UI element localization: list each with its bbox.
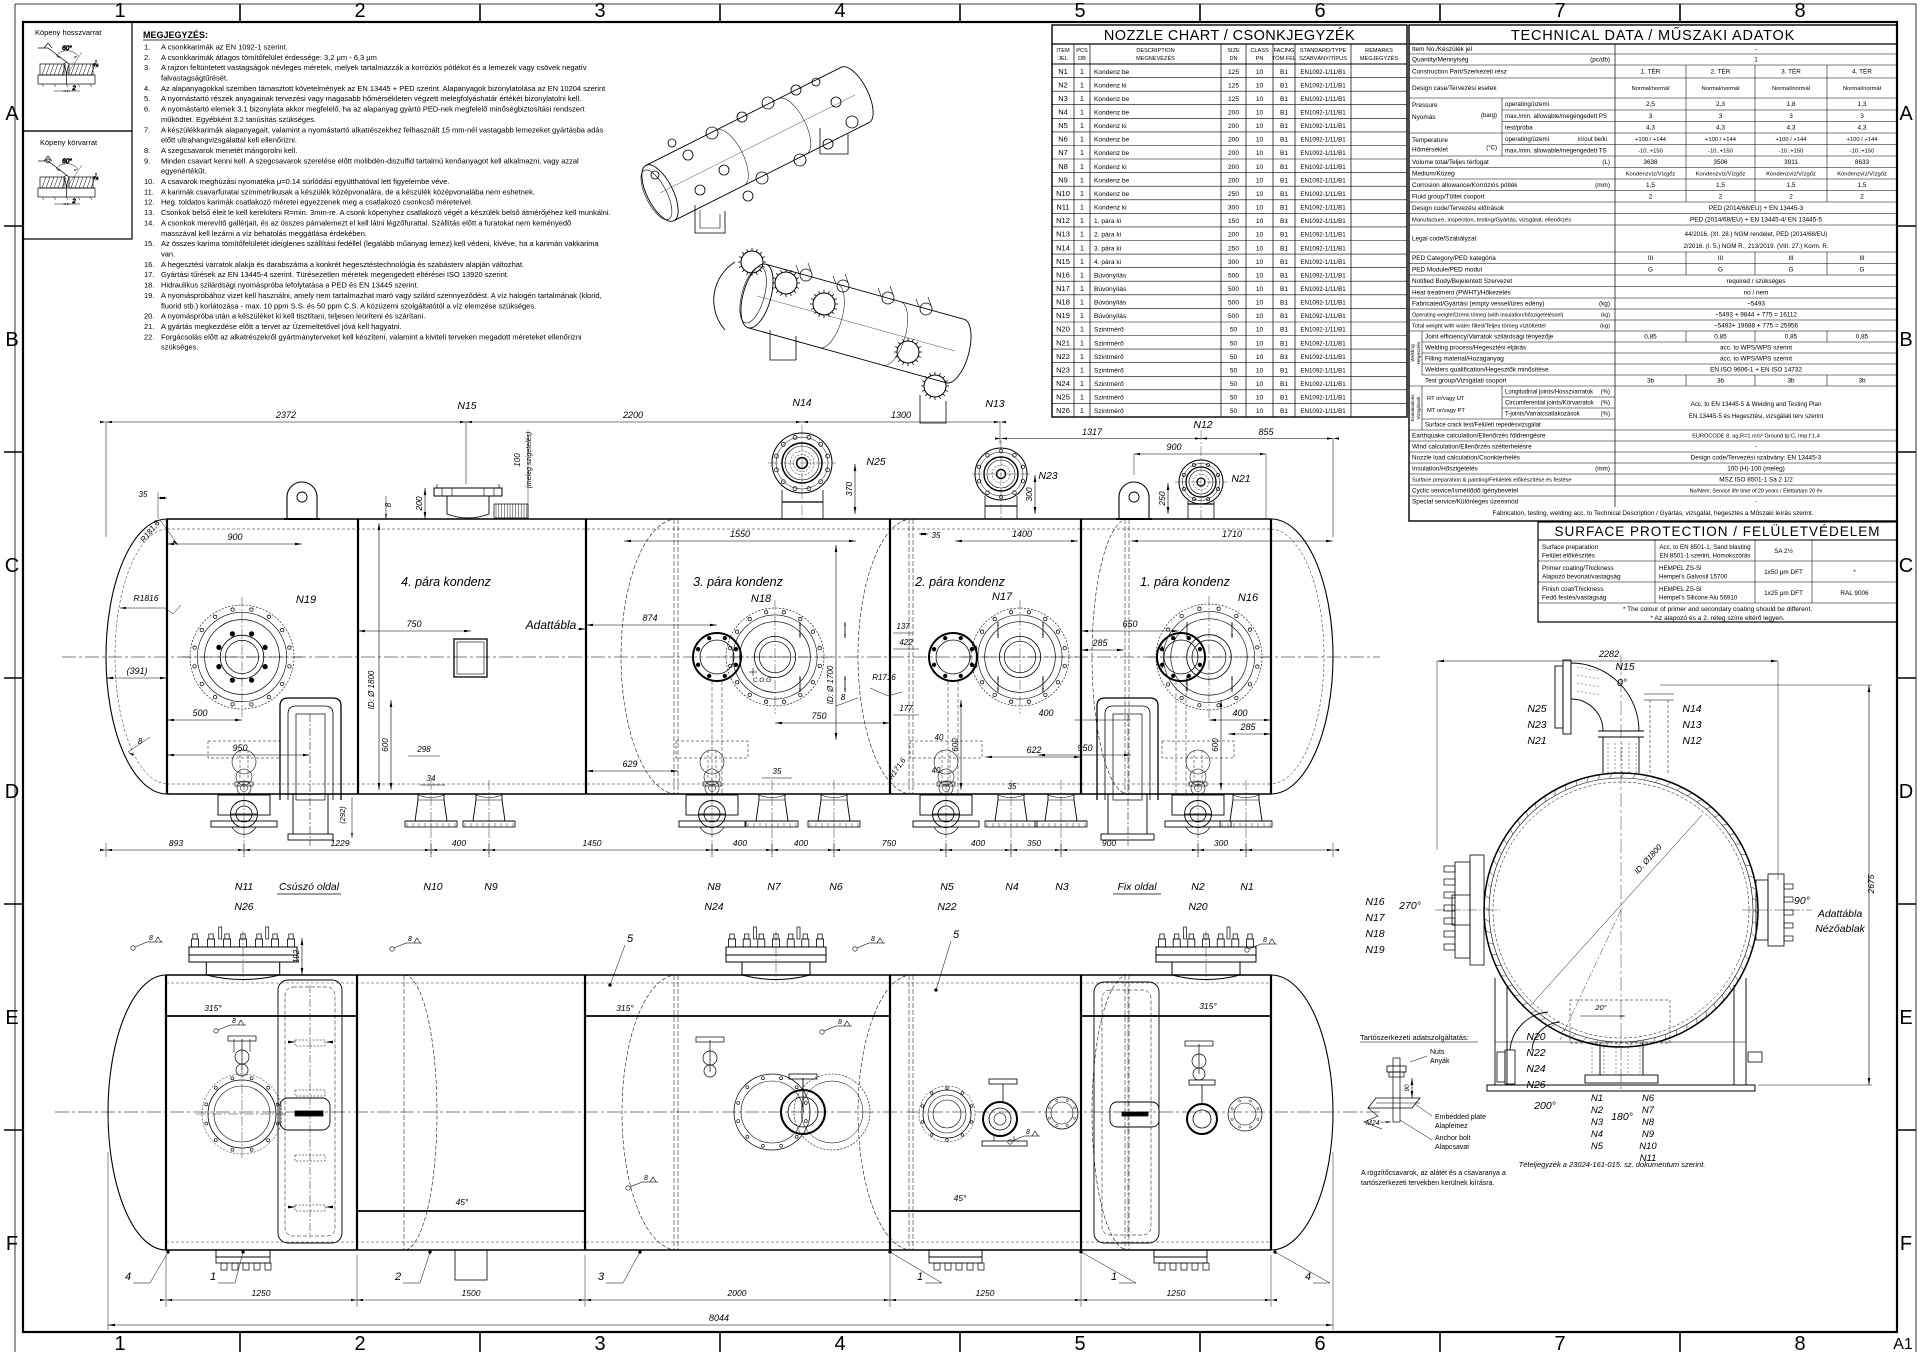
- svg-text:in/out be/ki: in/out be/ki: [1578, 137, 1607, 143]
- svg-text:Adattábla: Adattábla: [525, 618, 577, 632]
- svg-text:Longitudinal joints/Hosszvarra: Longitudinal joints/Hosszvarratok: [1505, 390, 1594, 396]
- svg-text:8: 8: [644, 1175, 648, 1182]
- svg-text:N15: N15: [457, 400, 476, 412]
- svg-text:B1: B1: [1280, 368, 1288, 375]
- svg-text:400: 400: [452, 838, 466, 848]
- svg-text:egyenértékűt.: egyenértékűt.: [161, 167, 206, 176]
- svg-text:Búvónyílás: Búvónyílás: [1094, 313, 1127, 320]
- svg-text:8.: 8.: [144, 146, 150, 155]
- svg-text:200: 200: [1228, 123, 1239, 130]
- svg-text:~5493+ 19688 + 775 = 25956: ~5493+ 19688 + 775 = 25956: [1714, 323, 1799, 330]
- svg-text:600: 600: [951, 738, 960, 752]
- svg-text:PCS: PCS: [1076, 48, 1088, 54]
- svg-text:F: F: [1900, 1233, 1912, 1255]
- end view diagonal: [1530, 815, 1702, 1006]
- bottom nozzle at x=431: [415, 794, 447, 821]
- svg-text:1: 1: [114, 1333, 125, 1355]
- svg-text:Hidraulikus szilárdsági nyomás: Hidraulikus szilárdsági nyomáspróba lefo…: [161, 281, 419, 290]
- svg-text:N21: N21: [1056, 338, 1070, 347]
- svg-text:acc. to WPS/WPS szerint: acc. to WPS/WPS szerint: [1720, 345, 1792, 352]
- top view vessel shell: [108, 975, 1333, 1250]
- svg-text:B1: B1: [1280, 395, 1288, 402]
- svg-text:N15: N15: [1056, 257, 1070, 266]
- svg-text:2372: 2372: [275, 410, 296, 420]
- svg-text:1: 1: [1080, 245, 1084, 252]
- svg-text:max./min. allowable/megengedet: max./min. allowable/megengedett PS: [1505, 113, 1607, 120]
- svg-text:100: 100: [513, 453, 522, 467]
- technical data table: [1409, 25, 1897, 521]
- svg-text:Heat treatment (PWHT)/Hőkezelé: Heat treatment (PWHT)/Hőkezelés: [1412, 289, 1511, 296]
- svg-text:200°: 200°: [1533, 1100, 1556, 1112]
- small T nozzle ch1: [241, 1039, 243, 1070]
- svg-text:1: 1: [1080, 232, 1084, 239]
- svg-text:EUROCODE 8, ag,R=1 m/s² Ground: EUROCODE 8, ag,R=1 m/s² Ground tp:C, Imp…: [1692, 434, 1820, 440]
- svg-text:N25: N25: [1056, 393, 1070, 402]
- svg-text:6.: 6.: [144, 105, 150, 114]
- svg-text:10: 10: [1256, 177, 1264, 184]
- svg-text:10: 10: [1256, 150, 1264, 157]
- svg-text:4: 4: [125, 1271, 131, 1283]
- manhole N18: [726, 608, 824, 706]
- top view bottom dims: [166, 1299, 1271, 1301]
- svg-text:8: 8: [1794, 1333, 1805, 1355]
- svg-text:+100 / +144: +100 / +144: [1705, 137, 1737, 143]
- svg-text:855: 855: [1258, 427, 1274, 437]
- svg-text:3: 3: [1789, 113, 1793, 120]
- svg-text:Fix oldal: Fix oldal: [1117, 881, 1157, 893]
- svg-text:2: 2: [71, 199, 76, 205]
- svg-text:(barg): (barg): [1481, 113, 1497, 119]
- svg-text:1: 1: [1080, 381, 1084, 388]
- svg-text:19.: 19.: [144, 291, 154, 300]
- svg-text:B1: B1: [1280, 327, 1288, 334]
- svg-text:Normal/normál: Normal/normál: [1631, 86, 1669, 92]
- svg-text:Nozzle load calculation/Csonkt: Nozzle load calculation/Csonkterhelés: [1412, 455, 1520, 462]
- svg-text:200: 200: [1228, 137, 1239, 144]
- svg-text:N21: N21: [1527, 735, 1546, 747]
- svg-text:1: 1: [1080, 286, 1084, 293]
- svg-text:Forgácsolás előtt az alkatrész: Forgácsolás előtt az alkatrészekről gyár…: [161, 332, 582, 341]
- svg-text:285: 285: [1239, 722, 1256, 732]
- svg-text:Joint efficiency/Varratok szil: Joint efficiency/Varratok szilárdsági té…: [1425, 334, 1554, 341]
- svg-text:EN1092-1/11/B1: EN1092-1/11/B1: [1300, 150, 1346, 157]
- svg-text:N16: N16: [1238, 592, 1259, 604]
- svg-text:B1: B1: [1280, 354, 1288, 361]
- svg-text:1: 1: [1080, 354, 1084, 361]
- svg-text:Tételjegyzék a 23024-161-015.: Tételjegyzék a 23024-161-015. sz. dokume…: [1519, 1160, 1706, 1169]
- svg-text:NOZZLE CHART / CSONKJEGYZÉK: NOZZLE CHART / CSONKJEGYZÉK: [1104, 27, 1355, 44]
- svg-text:EN1092-1/11/B1: EN1092-1/11/B1: [1300, 354, 1346, 361]
- svg-text:N12: N12: [1193, 419, 1212, 431]
- svg-text:RAL 9006: RAL 9006: [1840, 590, 1869, 597]
- svg-text:EN 13445-5 és Hegesztési, vizs: EN 13445-5 és Hegesztési, vizsgálati ter…: [1689, 413, 1824, 420]
- svg-text:874: 874: [642, 613, 657, 623]
- svg-text:Kondenz be: Kondenz be: [1094, 69, 1130, 76]
- svg-text:2: 2: [94, 176, 100, 181]
- svg-text:MEGJEGYZÉS:: MEGJEGYZÉS:: [143, 30, 208, 40]
- svg-text:B1: B1: [1280, 313, 1288, 320]
- svg-text:4. pára ki: 4. pára ki: [1094, 259, 1122, 266]
- svg-text:B1: B1: [1280, 177, 1288, 184]
- svg-text:1,3: 1,3: [1858, 101, 1867, 108]
- svg-text:EN1092-1/11/B1: EN1092-1/11/B1: [1300, 313, 1346, 320]
- svg-text:A csonkkarimák átlagos tömítőf: A csonkkarimák átlagos tömítőfelület érd…: [161, 53, 377, 62]
- svg-text:N1: N1: [1240, 881, 1253, 893]
- svg-text:DN: DN: [1229, 56, 1237, 62]
- svg-text:(%): (%): [1601, 412, 1610, 418]
- svg-text:C: C: [1899, 555, 1913, 577]
- svg-text:PED (2014/68/EU) + EN 13445-4/: PED (2014/68/EU) + EN 13445-4/ EN 13445-…: [1690, 216, 1822, 223]
- end view top elbow N15: [1602, 737, 1604, 773]
- svg-text:5: 5: [627, 933, 634, 945]
- svg-text:Embedded plate: Embedded plate: [1435, 1114, 1486, 1121]
- svg-text:N13: N13: [1682, 719, 1701, 731]
- svg-text:EN1092-1/11/B1: EN1092-1/11/B1: [1300, 96, 1346, 103]
- svg-text:13.: 13.: [144, 208, 154, 217]
- ch4 valve nozzle: [989, 1079, 1017, 1084]
- svg-text:Operating weight/Üzemi tömeg (: Operating weight/Üzemi tömeg (with insul…: [1412, 312, 1564, 319]
- top flange N26: [206, 962, 279, 980]
- svg-text:1: 1: [1111, 1271, 1117, 1283]
- svg-text:test/próba: test/próba: [1505, 124, 1533, 131]
- svg-text:90: 90: [1404, 1084, 1411, 1092]
- svg-text:N22: N22: [1526, 1047, 1545, 1059]
- svg-text:(mm): (mm): [1595, 466, 1610, 473]
- svg-text:Quantity/Mennyiség: Quantity/Mennyiség: [1412, 57, 1469, 64]
- svg-text:N26: N26: [1526, 1079, 1545, 1091]
- svg-text:B1: B1: [1280, 232, 1288, 239]
- svg-text:400: 400: [794, 838, 808, 848]
- svg-text:10: 10: [1256, 96, 1264, 103]
- svg-text:FACING: FACING: [1274, 48, 1295, 54]
- svg-text:Test group/Vizsgálati csoport: Test group/Vizsgálati csoport: [1425, 378, 1507, 385]
- svg-text:4.: 4.: [144, 84, 150, 93]
- svg-text:előtt ultrahangvizsgálattal ke: előtt ultrahangvizsgálattal kell ellenőr…: [161, 136, 297, 145]
- svg-text:300: 300: [1228, 259, 1239, 266]
- svg-text:50: 50: [1230, 340, 1238, 347]
- svg-text:270°: 270°: [1398, 900, 1421, 912]
- svg-text:N24: N24: [704, 901, 723, 913]
- svg-text:N12: N12: [1682, 735, 1701, 747]
- lifting lug left: [287, 482, 317, 519]
- isometric view vessel lower: [714, 248, 977, 423]
- svg-text:4,3: 4,3: [1646, 124, 1655, 131]
- svg-text:90°: 90°: [1794, 895, 1810, 907]
- svg-text:EN1092-1/11/B1: EN1092-1/11/B1: [1300, 286, 1346, 293]
- svg-text:3: 3: [1649, 113, 1653, 120]
- svg-text:N8: N8: [707, 881, 721, 893]
- svg-text:SIZE: SIZE: [1227, 48, 1240, 54]
- svg-text:Filling material/Hozaganyag: Filling material/Hozaganyag: [1425, 356, 1504, 363]
- svg-text:1: 1: [1080, 205, 1084, 212]
- svg-text:B1: B1: [1280, 123, 1288, 130]
- svg-text:2: 2: [394, 1271, 401, 1283]
- svg-text:(pc/db): (pc/db): [1590, 57, 1610, 64]
- svg-text:150: 150: [1228, 218, 1239, 225]
- svg-text:Kondenz ki: Kondenz ki: [1094, 82, 1127, 89]
- svg-text:1229: 1229: [331, 838, 350, 848]
- svg-text:10: 10: [1256, 340, 1264, 347]
- svg-text:N17: N17: [1056, 284, 1070, 293]
- inner manhole marks: [799, 622, 801, 638]
- svg-text:22.: 22.: [144, 332, 154, 341]
- svg-text:35: 35: [773, 767, 782, 776]
- svg-text:III: III: [1718, 255, 1724, 262]
- svg-text:B1: B1: [1280, 259, 1288, 266]
- svg-text:Vizsgálatok: Vizsgálatok: [1416, 396, 1421, 420]
- svg-text:B: B: [5, 329, 18, 351]
- svg-text:1300: 1300: [891, 410, 911, 420]
- svg-text:III: III: [1648, 255, 1654, 262]
- svg-text:JEL: JEL: [1058, 56, 1068, 62]
- notes block MEGJEGYZÉS: [143, 30, 611, 352]
- svg-text:3: 3: [598, 1271, 605, 1283]
- svg-text:N17: N17: [992, 591, 1013, 603]
- side view centerline: [62, 656, 1380, 658]
- svg-text:acc. to WPS/WPS szerint: acc. to WPS/WPS szerint: [1720, 356, 1792, 363]
- svg-text:N24: N24: [1056, 379, 1070, 388]
- svg-text:B1: B1: [1280, 408, 1288, 415]
- svg-text:Hempel's Silicone Alu 56910: Hempel's Silicone Alu 56910: [1659, 595, 1738, 602]
- svg-text:B1: B1: [1280, 164, 1288, 171]
- svg-text:N26: N26: [234, 901, 253, 913]
- svg-text:N8: N8: [1642, 1117, 1655, 1128]
- svg-text:N18: N18: [751, 593, 772, 605]
- svg-text:893: 893: [169, 838, 183, 848]
- svg-text:G: G: [1789, 266, 1794, 273]
- svg-text:10: 10: [1256, 245, 1264, 252]
- svg-text:Surface preparation & painting: Surface preparation & painting/Felületek…: [1412, 478, 1572, 484]
- svg-text:2. TÉR: 2. TÉR: [1711, 67, 1731, 76]
- svg-text:8633: 8633: [1855, 159, 1870, 166]
- svg-text:1710: 1710: [1222, 529, 1242, 539]
- nameplate Adattábla: [454, 639, 487, 677]
- end view rim hatch: [1753, 910, 1758, 913]
- svg-text:1450: 1450: [583, 838, 602, 848]
- manhole N19: [190, 605, 294, 709]
- svg-text:5.: 5.: [144, 94, 150, 103]
- svg-text:Köpeny hosszvarrat: Köpeny hosszvarrat: [35, 28, 102, 37]
- svg-text:4: 4: [834, 1333, 845, 1355]
- svg-text:1317: 1317: [1082, 427, 1103, 437]
- svg-text:7: 7: [1554, 1333, 1565, 1355]
- svg-text:EN1092-1/11/B1: EN1092-1/11/B1: [1300, 164, 1346, 171]
- svg-text:Medium/Közeg: Medium/Közeg: [1412, 170, 1455, 177]
- svg-text:B1: B1: [1280, 286, 1288, 293]
- slot sight box ch1: [280, 1098, 330, 1130]
- svg-text:1,8: 1,8: [1787, 101, 1796, 108]
- svg-text:250: 250: [1157, 491, 1167, 506]
- svg-text:EN1092-1/11/B1: EN1092-1/11/B1: [1300, 395, 1346, 402]
- svg-text:D: D: [1899, 781, 1913, 803]
- svg-text:required / szükséges: required / szükséges: [1727, 278, 1786, 285]
- svg-text:N4: N4: [1005, 881, 1019, 893]
- top flange N20: [1172, 962, 1240, 980]
- svg-text:3506: 3506: [1713, 159, 1728, 166]
- svg-text:900: 900: [1102, 838, 1116, 848]
- svg-text:B1: B1: [1280, 96, 1288, 103]
- svg-text:2675: 2675: [1866, 874, 1876, 894]
- svg-text:masszával kell lezárni a víz b: masszával kell lezárni a víz behatolás m…: [161, 229, 367, 238]
- svg-text:B1: B1: [1280, 300, 1288, 307]
- svg-text:2: 2: [1789, 193, 1793, 200]
- svg-text:180°: 180°: [1611, 1111, 1633, 1123]
- svg-text:1: 1: [1080, 259, 1084, 266]
- svg-text:Az összes karima tömítőfelület: Az összes karima tömítőfelületét ideigle…: [161, 239, 600, 248]
- svg-text:4,3: 4,3: [1716, 124, 1725, 131]
- svg-text:50: 50: [1230, 408, 1238, 415]
- svg-text:1,5: 1,5: [1716, 182, 1725, 189]
- svg-text:0,85: 0,85: [1856, 334, 1869, 341]
- svg-text:18.: 18.: [144, 281, 154, 290]
- end view lower-left elbow: [1532, 1022, 1560, 1050]
- svg-text:N2: N2: [1191, 881, 1205, 893]
- svg-text:~5493: ~5493: [1747, 301, 1765, 308]
- svg-text:5: 5: [953, 929, 960, 941]
- svg-text:N23: N23: [1527, 719, 1546, 731]
- svg-text:N3: N3: [1591, 1117, 1604, 1128]
- svg-text:B1: B1: [1280, 218, 1288, 225]
- svg-text:N10: N10: [1639, 1141, 1657, 1152]
- svg-text:250: 250: [1228, 191, 1239, 198]
- end view circle: [1435, 655, 1812, 1091]
- svg-text:100 (H)-100 (meleg): 100 (H)-100 (meleg): [1727, 466, 1785, 473]
- svg-text:DB: DB: [1078, 56, 1086, 62]
- svg-text:1: 1: [1080, 395, 1084, 402]
- svg-text:N24: N24: [1526, 1063, 1545, 1075]
- side view top dimension row 3: [1134, 453, 1266, 455]
- svg-text:EN1092-1/11/B1: EN1092-1/11/B1: [1300, 368, 1346, 375]
- svg-text:8: 8: [408, 936, 412, 943]
- top nozzle N15 flange: [434, 488, 502, 496]
- svg-text:N5: N5: [940, 881, 954, 893]
- top nozzle N21 (N12 behind): [1179, 460, 1223, 504]
- svg-text:R1716: R1716: [872, 673, 896, 682]
- svg-text:2: 2: [354, 0, 365, 22]
- svg-text:F: F: [6, 1233, 18, 1255]
- svg-text:Surface crack test/Felületi re: Surface crack test/Felületi repedésvizsg…: [1425, 423, 1541, 429]
- svg-text:Alapozó bevonat/vastagság: Alapozó bevonat/vastagság: [1542, 574, 1621, 581]
- bottom nozzle at x=1061: [1045, 794, 1077, 821]
- svg-text:-: -: [1755, 499, 1757, 506]
- svg-text:5: 5: [1074, 0, 1085, 22]
- saddle support left (Csúszó): [280, 698, 341, 800]
- svg-text:50: 50: [1230, 395, 1238, 402]
- svg-text:T-joints/Varratcsatlakozások: T-joints/Varratcsatlakozások: [1505, 412, 1581, 418]
- end view right flange 90: [1756, 880, 1768, 940]
- svg-text:622: 622: [1026, 745, 1041, 755]
- svg-text:7: 7: [1554, 0, 1565, 22]
- svg-text:Hegesztés: Hegesztés: [1416, 341, 1422, 364]
- svg-text:Alapcsavar: Alapcsavar: [1435, 1144, 1470, 1151]
- svg-text:1. pára kondenz: 1. pára kondenz: [1140, 575, 1230, 589]
- svg-text:N14: N14: [1056, 243, 1070, 252]
- svg-text:Kondenz ki: Kondenz ki: [1094, 205, 1127, 212]
- svg-text:MT or/vagy PT: MT or/vagy PT: [1427, 408, 1465, 414]
- svg-text:N6: N6: [829, 881, 843, 893]
- svg-text:10: 10: [1256, 368, 1264, 375]
- svg-text:(292): (292): [338, 806, 347, 824]
- svg-text:Welding process/Hegesztési elj: Welding process/Hegesztési eljárás: [1425, 345, 1526, 352]
- svg-text:44/2016. (XI. 28.) NGM rendele: 44/2016. (XI. 28.) NGM rendelet, PED (20…: [1685, 231, 1828, 238]
- svg-text:STANDARD/TYPE: STANDARD/TYPE: [1300, 48, 1347, 54]
- svg-text:EN1092-1/11/B1: EN1092-1/11/B1: [1300, 245, 1346, 252]
- svg-text:3: 3: [1860, 113, 1864, 120]
- svg-text:50: 50: [1230, 368, 1238, 375]
- svg-text:2. pára ki: 2. pára ki: [1094, 232, 1122, 239]
- end view bottom nozzle: [1599, 1043, 1601, 1075]
- svg-text:A: A: [1899, 103, 1913, 125]
- svg-text:3b: 3b: [1647, 378, 1655, 385]
- svg-text:6: 6: [1314, 1333, 1325, 1355]
- svg-text:Nyomás: Nyomás: [1412, 114, 1435, 121]
- svg-text:35: 35: [1008, 782, 1017, 791]
- svg-text:125: 125: [1228, 96, 1239, 103]
- svg-text:-10..+150: -10..+150: [1850, 148, 1875, 154]
- svg-text:operating/üzemi: operating/üzemi: [1505, 101, 1549, 108]
- svg-text:1.: 1.: [144, 43, 150, 52]
- svg-text:3.: 3.: [144, 63, 150, 72]
- svg-text:14.: 14.: [144, 218, 154, 227]
- svg-text:8: 8: [841, 693, 846, 702]
- svg-text:1: 1: [1080, 300, 1084, 307]
- svg-text:van.: van.: [161, 250, 175, 259]
- svg-text:N20: N20: [1188, 901, 1207, 913]
- svg-text:200: 200: [1228, 177, 1239, 184]
- svg-text:C.O.G: C.O.G: [753, 677, 771, 684]
- svg-text:Heg. toldatos karimák csatlako: Heg. toldatos karimák csatlakozó méretei…: [161, 198, 473, 207]
- svg-text:N14: N14: [792, 397, 811, 409]
- svg-text:10: 10: [1256, 354, 1264, 361]
- svg-text:ID: Ø 1700: ID: Ø 1700: [826, 665, 835, 704]
- svg-text:Normal/normál: Normal/normál: [1772, 86, 1810, 92]
- svg-text:2: 2: [94, 63, 100, 68]
- svg-text:2: 2: [1649, 193, 1653, 200]
- svg-text:10: 10: [1256, 259, 1264, 266]
- svg-text:G: G: [1718, 266, 1723, 273]
- svg-text:1: 1: [1080, 327, 1084, 334]
- svg-text:Finish coat/Thickness: Finish coat/Thickness: [1542, 586, 1603, 593]
- ch5 T nozzle: [1198, 1044, 1200, 1074]
- svg-text:III: III: [1788, 255, 1794, 262]
- svg-text:Szintmérő: Szintmérő: [1094, 327, 1124, 334]
- svg-text:N20: N20: [1056, 325, 1070, 334]
- svg-text:1: 1: [1080, 218, 1084, 225]
- top view 45deg weld lines: [357, 1210, 585, 1212]
- svg-text:Nézőablak: Nézőablak: [1815, 923, 1865, 935]
- small T nozzle ch3: [709, 1040, 711, 1072]
- bottom nozzle at x=834: [818, 794, 850, 821]
- svg-text:Earthquake calculation/Ellenőr: Earthquake calculation/Ellenőrzés földre…: [1412, 433, 1546, 440]
- svg-text:N22: N22: [937, 901, 956, 913]
- svg-text:4. TÉR: 4. TÉR: [1852, 67, 1872, 76]
- svg-text:10: 10: [1256, 395, 1264, 402]
- svg-text:+100 / +144: +100 / +144: [1776, 137, 1808, 143]
- svg-text:EN1092-1/11/B1: EN1092-1/11/B1: [1300, 69, 1346, 76]
- svg-text:tartószerkezeti tervekben kerü: tartószerkezeti tervekben kerülnek kiírá…: [1361, 1180, 1494, 1187]
- top flange N24: [742, 962, 810, 980]
- svg-text:10: 10: [1256, 218, 1264, 225]
- svg-text:2. pára kondenz: 2. pára kondenz: [914, 575, 1005, 589]
- svg-text:3. TÉR: 3. TÉR: [1781, 67, 1801, 76]
- svg-text:17.: 17.: [144, 270, 154, 279]
- svg-text:8: 8: [1026, 1129, 1030, 1136]
- svg-text:PED (2014/68/EU) + EN 13445-3: PED (2014/68/EU) + EN 13445-3: [1709, 205, 1804, 212]
- svg-text:4: 4: [1305, 1271, 1311, 1283]
- svg-text:125: 125: [1228, 82, 1239, 89]
- svg-text:1500: 1500: [462, 1288, 481, 1298]
- svg-text:10: 10: [1256, 123, 1264, 130]
